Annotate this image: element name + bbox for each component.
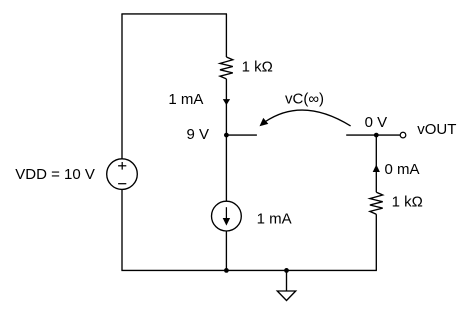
- label 1 mA top: [168, 91, 203, 108]
- voltage source plus sign: [118, 162, 126, 170]
- wire: right branch node to resistor: [375, 135, 377, 192]
- wire: middle branch node to current source: [225, 135, 227, 201]
- label 0 mA: [385, 161, 420, 178]
- current arrow 0 mA upward on right branch: [373, 165, 380, 173]
- label VDD = 10 V: [15, 166, 95, 183]
- wire: stub right of 9V node: [226, 134, 257, 136]
- label 1 mA bottom: [257, 211, 292, 228]
- wire: middle branch current source to bottom: [225, 231, 227, 270]
- resistor R1 1 kOhm zigzag: [220, 57, 233, 79]
- resistor R2 1 kOhm zigzag: [370, 192, 383, 214]
- wire: middle branch resistor to node: [225, 79, 227, 135]
- current source I1 circle: [212, 201, 242, 231]
- wire: right branch resistor to bottom: [375, 214, 377, 270]
- svg-text:1 kΩ: 1 kΩ: [392, 194, 423, 211]
- svg-text:1 mA: 1 mA: [257, 211, 292, 228]
- label 9 V: [187, 126, 210, 143]
- junction dot ground bottom: [284, 268, 289, 273]
- label vOUT: [417, 121, 456, 138]
- svg-text:1 kΩ: 1 kΩ: [242, 58, 273, 75]
- svg-text:VDD = 10 V: VDD = 10 V: [15, 166, 95, 183]
- svg-text:1 mA: 1 mA: [168, 91, 203, 108]
- label 0 V: [365, 114, 388, 131]
- wire: left vertical upper: [121, 14, 123, 159]
- wire: middle branch top: [225, 14, 227, 57]
- svg-text:vOUT: vOUT: [417, 121, 456, 138]
- label 1 kOhm right: [392, 194, 423, 211]
- wire: right horizontal to terminal: [346, 134, 400, 136]
- voltage source V1 circle: [107, 159, 138, 190]
- node 9V junction dot: [224, 133, 229, 138]
- label vC(inf): [285, 91, 324, 108]
- svg-text:0 V: 0 V: [365, 114, 388, 131]
- ground triangle: [277, 291, 295, 301]
- svg-text:9 V: 9 V: [187, 126, 210, 143]
- wire: top horizontal: [121, 13, 227, 15]
- curved arrow vC(inf): [260, 110, 351, 126]
- node 0V junction dot: [374, 133, 379, 138]
- current source arrow: [223, 207, 230, 225]
- wire: bottom horizontal: [121, 269, 377, 271]
- svg-text:vC(∞): vC(∞): [285, 91, 324, 108]
- current arrow 1 mA downward on middle branch: [223, 99, 230, 105]
- label 1 kOhm top: [242, 58, 273, 75]
- terminal open circle vOUT: [400, 132, 406, 138]
- wire: left vertical lower: [121, 189, 123, 270]
- voltage source minus sign: [118, 183, 126, 185]
- svg-text:0 mA: 0 mA: [385, 161, 420, 178]
- ground stem: [286, 270, 288, 291]
- junction dot middle bottom: [224, 268, 229, 273]
